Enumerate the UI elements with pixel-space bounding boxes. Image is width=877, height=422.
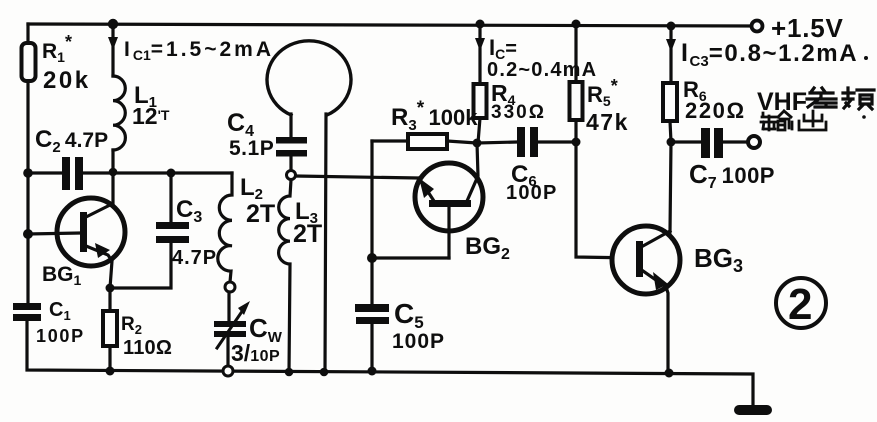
resistor R5 (574, 24, 577, 142)
resistor R6 (670, 26, 671, 142)
resistor R1 (22, 43, 36, 81)
svg-text:0.2~0.4mA: 0.2~0.4mA (487, 59, 597, 81)
svg-text:12'T: 12'T (132, 103, 170, 129)
node C4/L3 open terminal (287, 171, 296, 180)
node BG1 base junction (23, 229, 33, 239)
capacitor C6 (478, 142, 576, 143)
node emitter R2 junction (106, 284, 115, 293)
transistor BG1 (57, 198, 125, 266)
node C5 junction (367, 253, 377, 263)
svg-text:IC1=1.5~2mA: IC1=1.5~2mA (124, 38, 274, 63)
wire L1 branch (111, 24, 114, 173)
inductor L3 (279, 180, 291, 372)
svg-text:2T: 2T (246, 200, 275, 228)
svg-text:R3* 100k: R3* 100k (391, 98, 478, 134)
node VHF output terminal (748, 136, 760, 148)
arrow Ic (475, 38, 485, 51)
svg-text:IC=: IC= (489, 35, 517, 62)
svg-text:C5: C5 (394, 298, 424, 332)
figure number circle 2 (776, 278, 826, 328)
wire C2 row (28, 171, 232, 174)
svg-text:+1.5V: +1.5V (771, 13, 844, 43)
speck (864, 56, 868, 60)
node top rail junctions (23, 19, 676, 378)
svg-text:C3: C3 (176, 196, 202, 226)
inductor L1 (113, 76, 125, 150)
svg-text:330Ω: 330Ω (491, 102, 546, 123)
capacitor C7 (671, 140, 747, 143)
svg-text:BG2: BG2 (465, 233, 510, 263)
wire left rail (26, 24, 29, 304)
svg-text:BG3: BG3 (694, 243, 743, 276)
svg-text:2T: 2T (293, 220, 322, 248)
svg-text:IC3=0.8~1.2mA: IC3=0.8~1.2mA (681, 39, 858, 70)
capacitor C3 (110, 173, 171, 288)
svg-text:C2 4.7P: C2 4.7P (35, 126, 108, 156)
resistor R2 (108, 288, 111, 371)
svg-text:100P: 100P (392, 330, 445, 353)
resistor R4 (478, 24, 480, 143)
label chaipin (Chinese: difference frequency) (807, 88, 874, 109)
wire R3 left drop to C5 (372, 141, 449, 258)
svg-text:R1*: R1* (42, 32, 72, 65)
svg-text:4.7P: 4.7P (172, 247, 217, 269)
ground (734, 405, 772, 415)
node C6-R5 junction (572, 138, 581, 147)
capacitor C5 (370, 258, 373, 371)
wire R5 to BG3 base (576, 142, 637, 258)
label shuchu (Chinese: output) (761, 111, 826, 130)
transistor BG3 (612, 226, 680, 294)
node C2 row junctions (23, 168, 33, 178)
node R6-C7 junction (667, 138, 676, 147)
svg-text:C7 100P: C7 100P (689, 159, 775, 192)
svg-text:100P: 100P (506, 182, 558, 204)
svg-text:BG1: BG1 (42, 263, 82, 288)
resistor R3 (372, 141, 477, 143)
wire BG2 base from C4 node (296, 176, 417, 178)
svg-text:CW: CW (249, 313, 283, 346)
wire bottom rail (27, 320, 753, 407)
loop antenna (balloon) (267, 41, 351, 115)
node L2-Cw open terminal (225, 282, 235, 292)
capacitor Cw (variable) (228, 292, 229, 366)
node Cw ground open terminal (223, 366, 233, 376)
capacitor C1 (13, 303, 41, 321)
svg-text:R2: R2 (121, 314, 142, 337)
svg-text:5.1P: 5.1P (229, 137, 274, 160)
svg-text:100P: 100P (36, 326, 85, 346)
svg-text:47k: 47k (586, 109, 629, 135)
transistor BG2 (415, 163, 483, 231)
arrow Ic1 (108, 37, 118, 50)
svg-text:L2: L2 (240, 174, 263, 203)
svg-text:220Ω: 220Ω (685, 98, 746, 123)
node R3-C6 junction (473, 139, 482, 148)
inductor L2 (218, 173, 232, 282)
arrow Ic3 (666, 39, 676, 52)
capacitor C4 (276, 137, 307, 157)
speck (862, 115, 866, 119)
svg-text:20k: 20k (43, 67, 91, 94)
svg-text:2: 2 (788, 280, 812, 329)
wire top rail +1.5V (28, 24, 757, 26)
svg-text:C1: C1 (49, 299, 71, 323)
node +1.5V terminal (752, 21, 763, 32)
node bottom rail junctions (106, 367, 115, 376)
svg-text:C4: C4 (227, 109, 254, 140)
capacitor C2 (62, 157, 83, 190)
svg-text:110Ω: 110Ω (123, 337, 172, 359)
